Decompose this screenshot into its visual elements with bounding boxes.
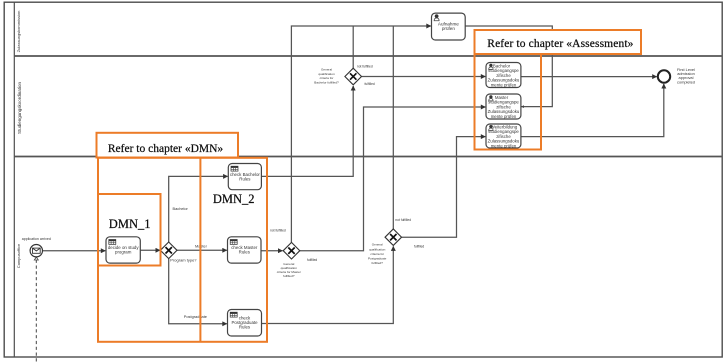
annotation DMN_1 box [98, 194, 161, 266]
annotation Refer to chapter DMN label box [97, 133, 239, 158]
svg-text:fulfilled: fulfilled [307, 258, 317, 262]
wire Bachelor assessment to end event [521, 76, 657, 78]
wire gateway up to check Bachelor Rules (Bachelor branch) [169, 176, 228, 242]
wire not-fulfilled merge to Aufnahme pruefen [291, 26, 430, 242]
svg-text:Campusoffice: Campusoffice [16, 243, 21, 268]
svg-text:mente prüfen: mente prüfen [491, 82, 517, 87]
annotation Refer to chapter Assessment label box [475, 30, 642, 54]
gateway Postgraduate fulfilled? (XOR) [368, 229, 402, 265]
task Aufnahme pruefen (user task) [432, 13, 466, 40]
gateway Master fulfilled? (XOR) [277, 242, 301, 278]
gateway Program type? (XOR) [160, 242, 197, 263]
svg-text:Rules: Rules [239, 324, 251, 329]
wire Bachelor gateway not fulfilled (up) [352, 26, 354, 68]
wire start to decide task [43, 250, 106, 252]
svg-text:Postgraduate: Postgraduate [184, 314, 207, 319]
svg-text:Bachelor: Bachelor [173, 206, 189, 211]
svg-text:DMN_2: DMN_2 [213, 192, 255, 206]
lane divider 2 [14, 156, 722, 158]
svg-text:mente prüfen: mente prüfen [491, 114, 517, 119]
svg-text:mente prüfen: mente prüfen [491, 143, 517, 148]
annotation divider DMN_2 [199, 158, 201, 342]
svg-text:Rules: Rules [239, 176, 251, 181]
svg-text:application arrived: application arrived [22, 237, 51, 241]
svg-text:fulfilled: fulfilled [365, 82, 375, 86]
lane divider 1 [14, 55, 722, 57]
svg-text:fulfilled?: fulfilled? [283, 274, 295, 278]
svg-text:fulfilled: fulfilled [414, 244, 424, 248]
task check Master Rules [228, 237, 262, 263]
task Bachelor studiengangspezifische Zulassungsdokumente pruefen [486, 63, 521, 88]
task check Bachelor Rules [228, 164, 261, 190]
svg-text:DMN_1: DMN_1 [109, 217, 151, 231]
wire Bachelor gateway fulfilled to Bachelor assessment task [362, 76, 486, 78]
wire Master gateway fulfilled to Master assessment task [300, 107, 486, 251]
task check Postgraduate Rules [228, 310, 262, 337]
svg-text:program: program [115, 250, 132, 255]
wire check Postgraduate Rules to Postgraduate gateway (up) [262, 246, 394, 323]
task decide on study program [106, 237, 140, 263]
wire check Bachelor Rules to Bachelor gateway (up) [261, 86, 353, 176]
svg-text:Rules: Rules [239, 250, 251, 255]
svg-text:criteria for: criteria for [370, 252, 384, 256]
svg-text:completed: completed [677, 79, 695, 84]
message flow (dashed, into start event) [35, 260, 37, 362]
svg-text:not fulfilled: not fulfilled [357, 64, 373, 68]
wire Postgraduate gateway not fulfilled (up) [392, 26, 394, 229]
wire Aufnahme pruefen to Master assessment task (right side) [465, 26, 552, 107]
task Master studiengangspezifische Zulassungsdokumente pruefen [486, 94, 521, 119]
wire Weiterbildung assessment to end event (bottom) [521, 84, 664, 137]
svg-text:Postgraduate: Postgraduate [368, 257, 387, 261]
wire gateway right to check Master Rules (Master branch) [177, 249, 227, 251]
svg-text:General: General [372, 242, 383, 246]
annotation Assessment box [475, 54, 542, 150]
svg-text:fulfilled?: fulfilled? [372, 261, 384, 265]
pool label divider [13, 2, 15, 357]
wire Postgraduate gateway fulfilled to Weiterbildung assessment task [402, 137, 486, 238]
wire gateway down to check Postgraduate Rules (Postgraduate branch) [169, 259, 227, 324]
svg-text:qualification: qualification [369, 247, 386, 251]
wire decide task to Program type gateway [140, 249, 160, 251]
annotation big group box (DMN) [98, 158, 267, 342]
svg-text:Zulassungskommission: Zulassungskommission [16, 11, 21, 53]
svg-text:Refer to chapter «Assessment»: Refer to chapter «Assessment» [487, 38, 633, 50]
end event [658, 70, 670, 82]
wire check Master Rules to Master gateway [261, 250, 283, 252]
svg-text:Refer to chapter «DMN»: Refer to chapter «DMN» [108, 143, 224, 155]
svg-text:Program type?: Program type? [170, 258, 197, 263]
svg-text:Studiengangskoordination: Studiengangskoordination [17, 81, 22, 134]
svg-text:Bachelor fulfilled?: Bachelor fulfilled? [314, 80, 339, 84]
task Weiterbildung studiengangspezifische Zulassungsdokumente pruefen [486, 124, 521, 148]
start event (message) [30, 245, 42, 257]
svg-text:not fulfilled: not fulfilled [395, 218, 411, 222]
svg-text:not fulfilled: not fulfilled [270, 228, 286, 232]
svg-text:prüfen: prüfen [442, 26, 455, 31]
gateway Bachelor fulfilled? (XOR) [314, 68, 361, 85]
